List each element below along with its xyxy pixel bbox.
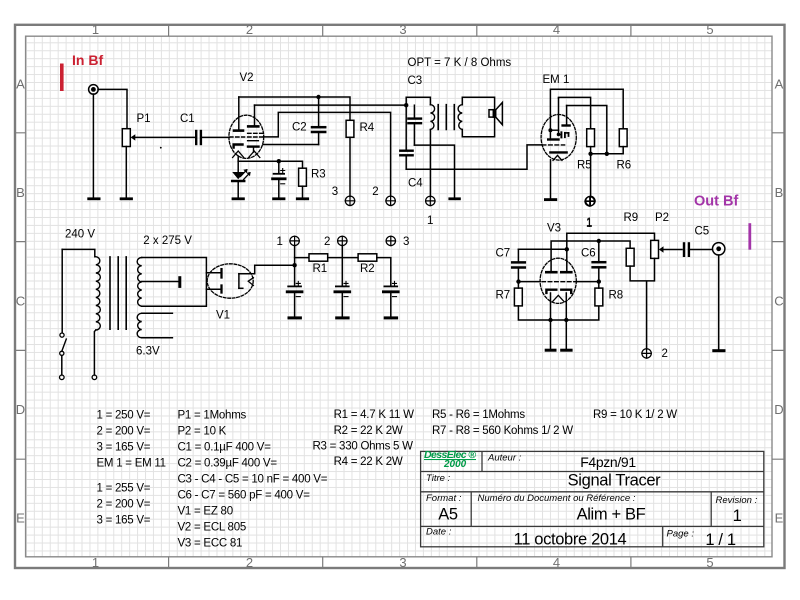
capacitor C4 <box>400 105 423 189</box>
svg-text:3 = 165 V=: 3 = 165 V= <box>97 442 151 454</box>
svg-text:C2 = 0.39µF 400 V=: C2 = 0.39µF 400 V= <box>178 458 278 470</box>
ground <box>544 198 557 201</box>
LED indicator <box>232 161 250 197</box>
svg-text:P1 = 1Mohms: P1 = 1Mohms <box>178 410 247 422</box>
filter rail <box>295 257 309 259</box>
svg-text:1: 1 <box>427 215 433 227</box>
svg-text:3: 3 <box>403 236 409 248</box>
svg-text:V2: V2 <box>240 72 254 84</box>
ground <box>296 197 309 200</box>
TEXTS <box>97 409 764 550</box>
svg-text:Page :: Page : <box>667 529 695 540</box>
wire EM1 anode to R6 <box>550 89 623 129</box>
svg-text:P2 = 10 K: P2 = 10 K <box>178 426 227 438</box>
switch S1 <box>60 249 67 379</box>
svg-text:P1: P1 <box>137 113 151 125</box>
wire R1 to R2 <box>328 257 358 259</box>
svg-text:1: 1 <box>733 507 742 525</box>
svg-text:Format :: Format : <box>426 493 462 504</box>
svg-text:C3 - C4 - C5 = 10 nF = 400 V=: C3 - C4 - C5 = 10 nF = 400 V= <box>178 474 328 486</box>
svg-text:C6 - C7 = 560 pF = 400 V=: C6 - C7 = 560 pF = 400 V= <box>178 490 311 502</box>
svg-text:2: 2 <box>246 555 253 570</box>
svg-text:2000: 2000 <box>443 459 467 470</box>
tube V2 ECL805 <box>229 72 264 161</box>
ground <box>448 197 460 200</box>
center tap lead <box>142 281 179 283</box>
wire EM1 electrode to R5 <box>559 97 591 128</box>
wire wiper to C5 <box>662 249 682 251</box>
wire node2 down <box>341 245 343 285</box>
svg-text:In Bf: In Bf <box>72 52 103 68</box>
wire cathode grounds <box>551 320 567 349</box>
value table column 4 <box>432 409 573 437</box>
svg-text:C: C <box>16 294 25 309</box>
node 1 <box>426 196 435 227</box>
output jack <box>713 243 725 255</box>
value table column 1 <box>97 410 166 527</box>
svg-text:V2 = ECL 805: V2 = ECL 805 <box>178 522 247 534</box>
wire R4 to node 3 <box>349 137 351 196</box>
svg-text:R7: R7 <box>496 289 511 301</box>
svg-text:5: 5 <box>706 22 713 37</box>
node In Bf <box>60 52 103 91</box>
value table column 5 <box>593 409 677 421</box>
ground <box>545 349 557 352</box>
svg-text:D: D <box>774 402 783 417</box>
svg-text:R4 = 22 K 2W: R4 = 22 K 2W <box>334 456 403 468</box>
ground <box>384 316 398 319</box>
svg-text:4: 4 <box>553 555 560 570</box>
resistor R2 <box>358 254 377 275</box>
svg-text:C7: C7 <box>496 248 511 260</box>
capacitor C3 <box>408 75 423 145</box>
svg-text:C3: C3 <box>408 75 423 87</box>
filter capacitor 2 <box>335 281 350 317</box>
svg-text:2 x 275 V: 2 x 275 V <box>143 235 192 247</box>
wire jack to P1 <box>98 89 127 128</box>
svg-text:1 = 255 V=: 1 = 255 V= <box>97 483 151 495</box>
svg-text:11 octobre 2014: 11 octobre 2014 <box>514 531 627 549</box>
filter capacitor 1 <box>287 281 302 317</box>
svg-text:A5: A5 <box>438 506 458 524</box>
node 1 <box>586 196 595 229</box>
svg-text:A: A <box>16 77 25 92</box>
ground <box>272 197 285 200</box>
wire C1 to V2 grid <box>202 136 229 138</box>
wire V2 triode anode rail <box>239 97 350 120</box>
svg-text:C2: C2 <box>292 122 307 134</box>
svg-text:R1 = 4.7 K 11 W: R1 = 4.7 K 11 W <box>334 409 414 421</box>
svg-text:C1 = 0.1µF 400 V=: C1 = 0.1µF 400 V= <box>178 442 272 454</box>
svg-text:Signal Tracer: Signal Tracer <box>568 472 662 490</box>
capacitor C1 <box>180 113 201 144</box>
wire node1 down <box>294 245 296 285</box>
svg-text:V1: V1 <box>216 310 230 322</box>
svg-text:R9: R9 <box>624 212 639 224</box>
filter capacitor 3 <box>383 281 398 317</box>
wire junction to OPT primary <box>406 97 430 105</box>
resistor R5 <box>577 129 595 172</box>
node Out Bf <box>694 194 751 250</box>
svg-text:R9 = 10 K 1/ 2 W: R9 = 10 K 1/ 2 W <box>593 409 677 421</box>
svg-text:3 = 165 V=: 3 = 165 V= <box>97 515 151 527</box>
wire primary bottom <box>94 330 95 375</box>
svg-text:C5: C5 <box>695 226 710 238</box>
svg-text:E: E <box>16 511 25 526</box>
svg-text:1 / 1: 1 / 1 <box>705 531 736 549</box>
wire V1 cathode out <box>239 265 295 273</box>
wire R2 to cap3 <box>377 258 391 286</box>
wire V3 grid left <box>518 281 540 283</box>
svg-text:P2: P2 <box>655 212 669 224</box>
svg-text:OPT = 7 K / 8 Ohms: OPT = 7 K / 8 Ohms <box>408 57 512 69</box>
node 3 <box>386 236 409 248</box>
value table column 2 <box>178 410 328 550</box>
svg-text:1: 1 <box>586 218 592 230</box>
resistor R9 <box>624 212 639 266</box>
svg-text:A: A <box>775 77 784 92</box>
wire C2 bottom to V2 <box>263 144 319 146</box>
svg-text:3: 3 <box>332 186 338 198</box>
node 1 <box>585 197 594 230</box>
capacitor C6 <box>581 241 605 282</box>
svg-text:2: 2 <box>662 348 668 360</box>
svg-text:2: 2 <box>246 22 253 37</box>
ground <box>712 349 725 352</box>
value table column 3 <box>313 409 415 468</box>
svg-text:Auteur :: Auteur : <box>487 453 522 464</box>
speaker LS <box>462 97 502 136</box>
wire 6.3V stubs <box>142 313 173 338</box>
wire C7 top feedback <box>518 248 566 250</box>
ground <box>335 316 349 319</box>
node 1 <box>277 236 300 248</box>
node 2 <box>372 186 395 205</box>
capacitor C7 <box>496 248 525 282</box>
svg-text:R2: R2 <box>360 263 375 275</box>
wire V1 plate stubs <box>206 273 220 289</box>
svg-text:V1 = EZ 80: V1 = EZ 80 <box>178 506 233 518</box>
ground <box>288 316 302 319</box>
wire EM1 top cap to tie <box>567 106 607 154</box>
tube V3 ECC81 <box>540 223 577 321</box>
resistor R3 <box>299 168 326 197</box>
svg-text:R5 - R6 = 1Mohms: R5 - R6 = 1Mohms <box>432 409 525 421</box>
node 2 <box>324 236 347 248</box>
ground <box>120 197 133 200</box>
svg-text:C6: C6 <box>581 248 596 260</box>
svg-text:C1: C1 <box>180 113 195 125</box>
svg-text:E: E <box>775 511 784 526</box>
wire C5 to jack <box>690 249 712 251</box>
svg-text:R7 - R8 = 560 Kohms 1/ 2 W: R7 - R8 = 560 Kohms 1/ 2 W <box>432 425 573 437</box>
wire V2 cathode rail <box>238 161 302 168</box>
svg-text:2 = 200 V=: 2 = 200 V= <box>97 499 151 511</box>
resistor R4 <box>346 120 375 137</box>
svg-text:2: 2 <box>324 236 330 248</box>
ground <box>87 197 100 200</box>
svg-text:2 = 200 V=: 2 = 200 V= <box>97 426 151 438</box>
svg-text:EM 1: EM 1 <box>543 74 570 86</box>
svg-text:R2 = 22 K 2W: R2 = 22 K 2W <box>334 425 403 437</box>
svg-text:R6: R6 <box>617 160 632 172</box>
svg-text:R3: R3 <box>311 169 326 181</box>
svg-text:R5: R5 <box>577 160 592 172</box>
node 2 <box>642 348 668 360</box>
wire V2 pentode grid to node 2 <box>263 112 390 196</box>
wire V3 cathode rail <box>518 306 598 320</box>
svg-text:C4: C4 <box>408 178 423 190</box>
potentiometer P2 <box>651 212 669 258</box>
capacitor C2 <box>292 97 325 145</box>
magic eye tube EM1 <box>541 74 576 160</box>
svg-text:R1: R1 <box>313 263 328 275</box>
svg-text:EM 1 = EM 11: EM 1 = EM 11 <box>97 458 166 470</box>
stray dot <box>160 147 162 149</box>
wire V2 pentode anode to OPT <box>255 104 407 106</box>
svg-text:V3: V3 <box>547 223 561 235</box>
svg-text:4: 4 <box>553 22 560 37</box>
svg-text:1 = 250 V=: 1 = 250 V= <box>97 410 151 422</box>
svg-text:Date :: Date : <box>426 527 452 538</box>
svg-text:1: 1 <box>277 236 283 248</box>
resistor R1 <box>309 254 328 275</box>
resistor R8 <box>595 282 623 306</box>
svg-text:R3 = 330 Ohms 5 W: R3 = 330 Ohms 5 W <box>313 441 414 453</box>
title block <box>421 449 764 549</box>
svg-text:C: C <box>774 294 783 309</box>
wire V3 grid right <box>576 281 599 283</box>
wire OPT primary to node 1 <box>429 130 431 197</box>
svg-text:6.3V: 6.3V <box>136 345 160 357</box>
wire mains top <box>62 249 95 256</box>
svg-text:F4pzn/91: F4pzn/91 <box>580 454 636 470</box>
svg-text:R4: R4 <box>360 122 375 134</box>
rectifier tube V1 EZ80 <box>207 264 253 322</box>
svg-text:Out Bf: Out Bf <box>694 194 738 210</box>
wire HV loop <box>142 258 207 307</box>
svg-text:240 V: 240 V <box>65 229 95 241</box>
resistor R6 <box>617 129 632 172</box>
wire C3 to ground <box>414 145 454 197</box>
capacitor cathode bypass electrolytic <box>273 161 286 197</box>
svg-text:3: 3 <box>399 22 406 37</box>
terminal <box>92 375 97 380</box>
input jack <box>89 85 99 95</box>
potentiometer P1 <box>122 113 150 146</box>
transformer OPT <box>430 105 462 130</box>
wire wiper to C1 <box>134 136 195 138</box>
svg-text:1: 1 <box>92 22 99 37</box>
svg-text:Revision :: Revision : <box>716 495 758 506</box>
ground <box>232 197 245 200</box>
wire R5 R6 tie <box>591 147 624 197</box>
wire V3 left anode <box>551 241 630 271</box>
wire P1 to ground <box>125 147 127 198</box>
svg-text:1: 1 <box>92 555 99 570</box>
svg-text:Alim + BF: Alim + BF <box>577 506 646 524</box>
svg-text:V3 = ECC 81: V3 = ECC 81 <box>178 538 243 550</box>
svg-text:B: B <box>16 185 25 200</box>
capacitor C5 <box>684 226 709 256</box>
resistor R7 <box>496 282 523 306</box>
center tap bar <box>178 276 181 288</box>
wire jack down <box>92 94 94 197</box>
svg-text:Titre :: Titre : <box>426 473 451 484</box>
transformer T1 <box>96 257 142 338</box>
wire jack to ground <box>718 255 720 349</box>
svg-text:Numéro du Document ou Référenc: Numéro du Document ou Référence : <box>478 493 636 504</box>
svg-text:D: D <box>16 402 25 417</box>
wire R9 P2 bottoms to node 2 <box>630 258 654 349</box>
wire EM1 cathode to ground <box>550 160 552 198</box>
svg-text:2: 2 <box>372 186 378 198</box>
svg-text:3: 3 <box>399 555 406 570</box>
wire V3 right anode <box>567 233 655 271</box>
svg-text:R8: R8 <box>609 290 624 302</box>
node 3 <box>332 186 355 205</box>
ground <box>560 349 572 352</box>
svg-text:5: 5 <box>706 555 713 570</box>
wire C4 to EM1 grid <box>406 145 541 169</box>
svg-text:B: B <box>775 185 784 200</box>
